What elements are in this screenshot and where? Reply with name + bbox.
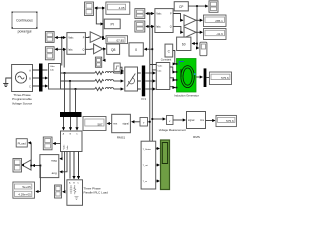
wire net2 to V2 [152, 118, 165, 120]
block Q8 [107, 44, 120, 54]
svg-text:07.85: 07.85 [116, 38, 124, 42]
powergui block [12, 12, 38, 29]
svg-text:Vabc: Vabc [156, 13, 162, 16]
wire net2 to T2 and PQ2 [146, 25, 152, 27]
svg-text:signal: signal [188, 119, 195, 122]
svg-text:Q8: Q8 [111, 48, 116, 52]
V-I measurement 3 (vertical) [61, 131, 83, 152]
load label [84, 187, 109, 195]
wires B2 to VI2 [145, 72, 155, 74]
svg-text:4.05: 4.05 [119, 6, 125, 10]
ground [3, 78, 11, 87]
scope S1 [85, 2, 94, 16]
timer block [114, 63, 120, 71]
source label [12, 93, 33, 105]
svg-text:Q: Q [170, 26, 172, 29]
gain GL (points left) [22, 160, 31, 170]
wire TR2 to DSP2 [196, 31, 202, 33]
meas vertical to polar mag [60, 152, 62, 159]
scope T1 [135, 9, 145, 19]
svg-text:0: 0 [135, 48, 137, 52]
branch wire C [61, 88, 95, 90]
junction net2 top [151, 26, 153, 28]
display D3 [209, 72, 231, 85]
scope S7 [55, 185, 62, 198]
meas vertical to scope S7 [63, 152, 65, 192]
breaker block [125, 67, 138, 91]
svg-text:RMS: RMS [193, 135, 200, 139]
svg-text:signal: signal [123, 123, 130, 126]
display D1 [106, 2, 130, 14]
junction net1 top [149, 13, 151, 15]
svg-text:Iabc: Iabc [156, 26, 161, 29]
svg-text:285.1: 285.1 [215, 19, 223, 23]
C display block [129, 43, 143, 56]
inductor A [105, 72, 113, 74]
power block P1 [67, 33, 86, 55]
wire RMS2 to W2 [206, 120, 215, 122]
resistor A [95, 71, 104, 74]
display W0 (2 rows) [13, 182, 35, 198]
svg-text:4.29e+05: 4.29e+05 [18, 193, 31, 197]
scope S5 [43, 137, 52, 150]
wire constant to machine Tm [173, 51, 176, 64]
long vertical net 2 [151, 26, 153, 141]
svg-text:C: C [29, 85, 31, 88]
V-I measurement 1 [49, 64, 61, 90]
svg-text:T_rot: T_rot [143, 164, 148, 167]
polar block mag/ang [40, 155, 59, 178]
PQ block 2 [155, 9, 173, 33]
tap to C display [151, 48, 153, 50]
display D2 [106, 36, 128, 44]
svg-text:5e+05: 5e+05 [22, 185, 31, 189]
wire net1 to V1 [148, 121, 150, 123]
svg-text:Constant: Constant [161, 57, 172, 61]
wire P1 Q out to G2 [85, 48, 93, 50]
wire up to PLoad [29, 143, 32, 166]
wire B3 to D3 [206, 77, 209, 79]
wire VI1 meas up to S3 and P1 [55, 37, 65, 66]
svg-text:VI 3: VI 3 [141, 97, 146, 101]
display DSP1 [204, 15, 227, 27]
svg-text:60: 60 [182, 43, 186, 47]
resistor C [95, 87, 104, 90]
wire TR1 to DSP1 [196, 19, 202, 21]
svg-text:powergui: powergui [18, 30, 32, 34]
wire VI3 meas left to scope S5 [53, 143, 60, 145]
scope T2 [135, 21, 145, 32]
sum triangle TR2 [184, 27, 196, 38]
voltage measurement V2 [167, 116, 174, 125]
induction machine [175, 59, 196, 93]
wire polar out to GL [33, 165, 40, 167]
bus selector [141, 141, 156, 189]
resistor B [95, 79, 104, 82]
RLC load block [67, 180, 83, 206]
wire RMS1 to W1 [107, 123, 111, 125]
svg-text:Vabc: Vabc [68, 37, 74, 40]
svg-text:Parallel RLC Load: Parallel RLC Load [84, 190, 109, 194]
meas vertical to polar ang [60, 152, 67, 172]
V-I measurement 2 [156, 63, 170, 90]
svg-text:587: 587 [97, 122, 102, 126]
wires bar H down to VI3 [63, 117, 65, 130]
PI block [104, 19, 120, 29]
svg-text:T_m: T_m [143, 181, 148, 183]
tap junction A down [64, 72, 66, 74]
voltage measurement V1 [140, 118, 148, 127]
inductor C [105, 88, 113, 90]
bus bar B3 [204, 68, 207, 87]
svg-text:PLoad: PLoad [18, 141, 27, 145]
svg-text:575.6: 575.6 [221, 76, 229, 80]
PLoad goto [16, 139, 27, 147]
scope S4 [45, 47, 54, 60]
display W1 [83, 117, 106, 131]
source: Three-Phase Programmable Voltage Source [12, 65, 33, 92]
scope T3 [209, 1, 218, 13]
wire CP to T3 and down [188, 5, 207, 48]
svg-text:Voltage Measurement: Voltage Measurement [159, 128, 186, 132]
display W2 [216, 115, 236, 126]
wires breaker to bar B2 [138, 73, 141, 89]
branch wire B [61, 80, 95, 82]
scope S3 [45, 32, 54, 43]
gain G1 [90, 32, 101, 43]
inductor B [105, 80, 113, 82]
wire V2 to RMS2 [173, 119, 185, 121]
svg-text:575.6: 575.6 [226, 119, 234, 123]
branch wire A [61, 72, 95, 74]
display DSP2 [204, 29, 227, 40]
wire GL to S6 [21, 164, 23, 166]
svg-text:CP: CP [179, 5, 183, 9]
wires bus selector to scope GV [156, 148, 160, 150]
svg-text:-41.9: -41.9 [216, 32, 223, 36]
wire V1 to RMS1 [132, 121, 140, 123]
svg-text:Iabc: Iabc [68, 48, 73, 51]
wires PQ2 outputs to triangles [173, 14, 183, 21]
svg-text:Continuous: Continuous [16, 19, 33, 23]
bus bar B2 [142, 66, 145, 97]
scope S6 [13, 159, 22, 173]
bus bar B1 [39, 64, 43, 92]
svg-text:Induction Generator: Induction Generator [174, 93, 199, 97]
wire G1-out junction up to S1/D1 and PI [95, 7, 104, 37]
horizontal black bus bar H [60, 112, 82, 117]
svg-text:Voltage Source: Voltage Source [12, 101, 33, 105]
green scope GV [161, 140, 170, 190]
wire polar out down to W0 [36, 166, 40, 192]
wires B1 to VI1 [43, 70, 48, 86]
svg-text:RMS1: RMS1 [117, 136, 126, 140]
constant block [165, 44, 173, 57]
svg-text:Q: Q [83, 48, 85, 51]
wire VI1 meas up to S4 and P1 [55, 48, 65, 67]
sum triangle TR1 [184, 15, 196, 26]
VI2 meas wires out left to verticals [150, 65, 157, 70]
DC display block [177, 37, 191, 50]
svg-text:PI: PI [110, 23, 113, 27]
RMS1 block [112, 114, 131, 132]
wires VI2 to machine [170, 67, 175, 72]
CP block [174, 2, 188, 11]
wire net1 to T1 and PQ2 [146, 13, 150, 15]
svg-text:ang: ang [52, 171, 57, 175]
svg-text:mag: mag [51, 159, 57, 163]
svg-text:T_Stator: T_Stator [143, 148, 152, 151]
wire P1 P out to G1 [85, 36, 90, 38]
load phase wires down [70, 152, 79, 179]
tap junction B down [69, 80, 71, 82]
wire machine to bar B3 [196, 76, 202, 78]
goto tag T4 [200, 42, 207, 56]
wire timer to breaker [120, 67, 123, 71]
wires source to bar B1 [33, 70, 40, 86]
scope S2 [95, 48, 105, 67]
long vertical net 1 [149, 14, 151, 142]
tap junction C down [75, 88, 77, 90]
gain G2 [94, 44, 103, 54]
wire G1 to D2 [103, 37, 105, 39]
RMS2 block [187, 112, 206, 129]
